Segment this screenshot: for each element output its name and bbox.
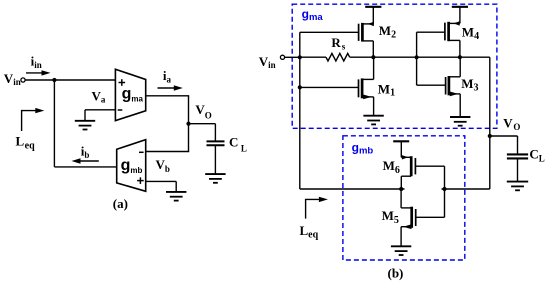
svg-text:(b): (b) <box>388 266 404 281</box>
svg-text:(a): (a) <box>113 196 128 211</box>
